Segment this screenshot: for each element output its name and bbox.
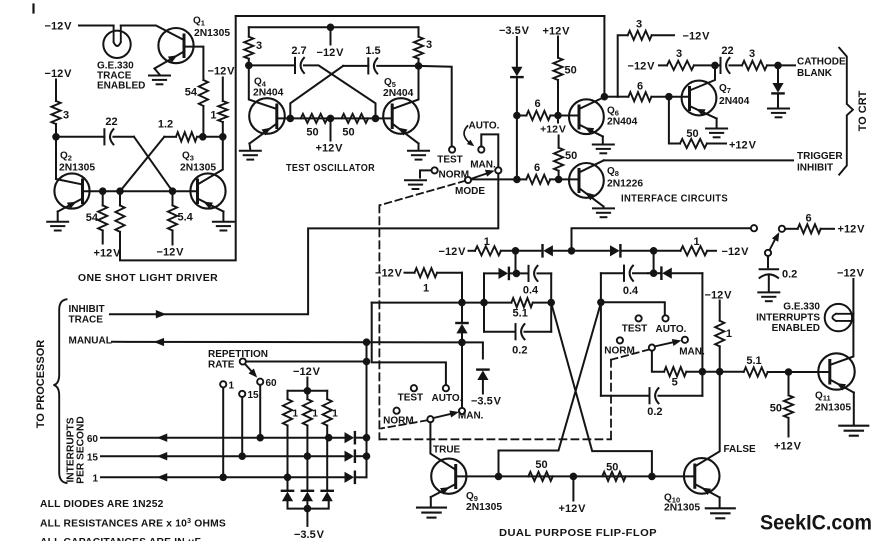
diode (clamp c, up) <box>322 491 333 501</box>
wire -12V rail to lamp <box>79 25 114 27</box>
wire 15/sec <box>101 455 345 457</box>
svg-text:Q1: Q1 <box>193 16 205 28</box>
wire Q7 base node down to 50 <box>669 97 680 144</box>
dashed box right edge <box>610 360 612 440</box>
wire base row left network <box>372 302 484 304</box>
svg-text:15: 15 <box>87 452 99 463</box>
capacitor 22 (cathode) <box>715 64 721 66</box>
svg-text:ALL DIODES ARE 1N252: ALL DIODES ARE 1N252 <box>40 499 164 510</box>
wire 1/sec <box>101 476 345 478</box>
svg-text:+12 V: +12 V <box>559 503 587 515</box>
capacitor 0.4 (left) <box>529 266 538 281</box>
lamp G.E.330 INTERRUPTS ENABLED <box>825 304 854 331</box>
svg-text:1: 1 <box>693 236 699 248</box>
wire oscillator inner rail <box>249 26 419 28</box>
svg-text:1.2: 1.2 <box>158 119 173 131</box>
node clamp rail <box>305 506 311 512</box>
svg-text:INHIBIT: INHIBIT <box>797 162 833 173</box>
resistor 3 (to -12V top) <box>628 31 652 40</box>
svg-text:2N404: 2N404 <box>607 117 638 128</box>
wire MANUAL <box>112 341 462 344</box>
svg-text:5.1: 5.1 <box>746 355 761 367</box>
node diode <box>775 63 781 69</box>
diode (15/sec) <box>345 451 355 462</box>
svg-text:−12 V: −12 V <box>157 247 185 259</box>
wire divider b down <box>306 426 308 491</box>
contact MAN (false side) <box>682 337 688 343</box>
node 5.4/diag A <box>170 188 176 194</box>
node Q10 base <box>649 474 655 480</box>
resistor 50 (left) <box>301 114 328 123</box>
wire resistor 3 to node <box>55 124 57 137</box>
svg-text:1: 1 <box>423 283 429 295</box>
resistor 3 (cathode row right) <box>730 64 743 66</box>
wire MODE row to interface <box>471 178 517 180</box>
wire to node <box>694 64 715 66</box>
svg-text:50: 50 <box>686 128 698 140</box>
node manual wire <box>459 340 465 346</box>
arrow 1 <box>157 473 167 481</box>
svg-text:−3.5 V: −3.5 V <box>294 529 325 541</box>
dashes pivot to box (true side) <box>381 420 427 428</box>
wire node to capacitor 2.7 <box>249 64 295 66</box>
contact NORM (mode) <box>432 167 438 173</box>
ground (Q3 emitter) <box>222 212 224 221</box>
svg-text:AUTO.: AUTO. <box>432 393 463 404</box>
svg-text:0.4: 0.4 <box>523 285 539 297</box>
resistor 6 (Q7 base) <box>618 96 629 98</box>
wire to -3.5V <box>306 509 308 526</box>
svg-text:−12 V: −12 V <box>208 66 236 78</box>
wire cross diagonal to Q4 base <box>290 66 343 119</box>
svg-text:3: 3 <box>256 40 262 52</box>
wire node row to resistor 1.2 <box>164 136 176 138</box>
svg-text:50: 50 <box>565 150 577 162</box>
network right: left edge <box>600 273 602 396</box>
wire 60/sec <box>101 437 345 439</box>
node rate wire <box>364 359 370 365</box>
diode (rail right, pointing right) <box>610 245 620 256</box>
ground (Q4 emitter) <box>249 144 252 150</box>
svg-text:RATE: RATE <box>208 359 235 370</box>
svg-text:0.2: 0.2 <box>647 406 662 418</box>
wire stub below node <box>557 116 559 123</box>
svg-text:+12 V: +12 V <box>94 248 122 260</box>
resistor 54 (Q1 base) <box>199 80 208 106</box>
contact AUTO (false side) <box>662 315 668 321</box>
network left: right edge <box>550 273 552 331</box>
resistor 1.2 <box>176 132 197 141</box>
wire +12V to resistor 50 <box>557 37 559 58</box>
svg-text:TO CRT: TO CRT <box>857 90 869 131</box>
wire rail middle <box>553 250 610 252</box>
wire to cathode blank <box>767 64 795 66</box>
contact MAN (mode) <box>495 167 501 173</box>
svg-text:3: 3 <box>63 110 69 122</box>
svg-text:MAN.: MAN. <box>458 411 484 422</box>
node rail stub <box>569 248 575 254</box>
node 15 x resistor <box>305 453 311 459</box>
wire to one-shot output rail <box>120 16 236 260</box>
svg-text:CATHODE: CATHODE <box>797 57 846 68</box>
wire Q2 base row <box>83 190 197 192</box>
switch pivot (repetition rate) <box>240 358 246 364</box>
diode (1/sec) <box>345 472 355 483</box>
svg-text:3: 3 <box>749 48 755 60</box>
wire Q1 base to resistor 54 <box>184 47 203 80</box>
svg-text:BLANK: BLANK <box>797 68 833 79</box>
svg-text:AUTO.: AUTO. <box>656 324 687 335</box>
svg-text:MODE: MODE <box>455 186 485 197</box>
wire to +12V <box>788 418 790 437</box>
svg-text:−12 V: −12 V <box>293 366 321 378</box>
svg-text:TRIGGER: TRIGGER <box>797 151 843 162</box>
svg-text:2N1305: 2N1305 <box>664 503 700 514</box>
resistor 50 (Q8) <box>554 148 563 171</box>
wire capacitor 1.5 to node <box>377 65 418 67</box>
svg-text:2.7: 2.7 <box>291 45 306 57</box>
wire resistor 1 to node <box>222 122 224 137</box>
svg-text:22: 22 <box>105 116 117 128</box>
svg-text:+12 V: +12 V <box>838 224 866 236</box>
arrow inhibit trace <box>156 310 166 318</box>
svg-text:TO PROCESSOR: TO PROCESSOR <box>35 340 47 428</box>
svg-text:ALL RESISTANCES ARE x 103 OHMS: ALL RESISTANCES ARE x 103 OHMS <box>40 518 226 530</box>
diode (60/sec) <box>345 432 355 443</box>
node Q6 base left <box>514 113 520 119</box>
svg-text:−12 V: −12 V <box>45 21 73 33</box>
wire top rail down to Q6 collector <box>603 16 605 97</box>
node Q9 base <box>496 474 502 480</box>
resistor 3 (cathode row left) <box>667 61 694 70</box>
node Q6 collector <box>602 94 608 100</box>
svg-text:−12 V: −12 V <box>705 289 733 301</box>
node network left edge <box>481 300 487 306</box>
svg-text:2N1305: 2N1305 <box>180 163 216 174</box>
node diag B / base <box>288 116 294 122</box>
ground (0.2 cap) <box>758 292 779 301</box>
ground (Q1 emitter) <box>155 69 160 75</box>
wire +12V stub <box>572 476 574 500</box>
transistor Q11 <box>818 353 854 392</box>
svg-text:6: 6 <box>805 213 811 225</box>
wire riser up to resistor 3 <box>618 35 628 96</box>
dashed box left edge <box>378 205 380 439</box>
cross coupling diagonal A <box>551 303 652 476</box>
node Q11 base / 50 <box>786 369 792 375</box>
svg-text:ONE SHOT LIGHT DRIVER: ONE SHOT LIGHT DRIVER <box>78 272 218 284</box>
wire lamp to Q1 collector <box>121 26 184 41</box>
ground (NORM) <box>405 180 426 189</box>
switch pivot (interrupt enable) <box>765 250 771 256</box>
ground (Q9 emitter) <box>430 497 432 507</box>
resistor 3 (Q4 collector) <box>248 27 250 36</box>
arc arrow AUTO <box>464 126 471 145</box>
node Q7 base / 50 <box>666 94 672 100</box>
capacitor 0.2 (pivot to ground) <box>767 256 769 267</box>
resistor 3 (Q2 collector) <box>51 101 60 124</box>
wire rail to resistor 1 <box>621 250 681 252</box>
wire node to TEST drop <box>419 66 452 146</box>
wire to +12V <box>102 231 104 244</box>
svg-text:3: 3 <box>426 39 432 51</box>
svg-text:ENABLED: ENABLED <box>97 81 145 92</box>
wire -12V to resistor 3 <box>55 80 57 102</box>
ground (Q5 emitter) <box>418 144 420 150</box>
transistor Q7 <box>682 65 717 118</box>
contact (interrupt enable left) <box>751 225 757 231</box>
svg-text:MANUAL: MANUAL <box>69 335 112 346</box>
svg-text:Q8: Q8 <box>607 166 619 178</box>
transistor Q5 <box>383 66 419 144</box>
svg-text:1: 1 <box>293 408 299 419</box>
node -12V stub <box>328 25 334 31</box>
network left: left edge <box>483 273 485 331</box>
node +12V stub <box>571 474 577 480</box>
diode (clamp a, up) <box>282 491 293 501</box>
wire resistor 1.2 to box edge <box>197 136 223 138</box>
wire -12V to resistor 3 <box>659 64 667 66</box>
resistor 50 (Q10 base) <box>602 472 626 481</box>
transistor Q6 <box>569 97 605 137</box>
wire resistor to base node <box>557 80 559 116</box>
node 60 x resistor <box>326 435 332 441</box>
svg-text:54: 54 <box>185 87 198 99</box>
wire FALSE drop to Q10 <box>695 372 720 467</box>
cross coupling diagonal B <box>499 303 601 477</box>
svg-text:1.5: 1.5 <box>365 45 380 57</box>
svg-text:2N1305: 2N1305 <box>194 28 230 39</box>
capacitor 22 <box>104 129 113 144</box>
wire stub to -12V <box>330 27 332 44</box>
svg-text:3: 3 <box>636 19 642 31</box>
node resistor1/-12V <box>220 134 226 140</box>
wire top rail <box>236 15 605 17</box>
svg-text:Q11: Q11 <box>815 391 831 403</box>
svg-text:3: 3 <box>676 48 682 60</box>
switch pivot (true side) <box>427 416 433 422</box>
svg-text:−12 V: −12 V <box>45 68 73 80</box>
wire -3.5V down <box>516 37 518 67</box>
svg-text:2N1305: 2N1305 <box>815 403 851 414</box>
svg-text:54: 54 <box>86 212 99 224</box>
svg-text:INHIBIT: INHIBIT <box>69 304 105 315</box>
resistor 1 (divider a) <box>287 391 289 399</box>
resistor 3 (Q5 collector) <box>418 27 420 36</box>
svg-text:6: 6 <box>534 98 540 110</box>
svg-text:50: 50 <box>606 462 618 474</box>
diode (right network, pointing left) <box>648 272 661 274</box>
svg-text:50: 50 <box>535 459 547 471</box>
diode (-3.5V feed, down) <box>511 67 522 77</box>
svg-text:15: 15 <box>248 390 260 401</box>
wire contact 15 down <box>241 397 243 456</box>
riser (interrupt collector) <box>366 342 368 477</box>
svg-text:1: 1 <box>312 408 318 419</box>
svg-text:50: 50 <box>306 127 318 139</box>
svg-text:MAN.: MAN. <box>679 346 705 357</box>
arrow 15 <box>157 452 167 460</box>
svg-text:AUTO.: AUTO. <box>469 120 500 131</box>
resistor 1 (divider b) <box>306 391 308 399</box>
svg-text:Q7: Q7 <box>719 83 731 95</box>
node 60 x contact <box>257 435 263 441</box>
capacitor 0.4 (right) <box>601 272 624 274</box>
svg-text:2N1305: 2N1305 <box>59 163 95 174</box>
svg-text:Q3: Q3 <box>182 151 194 163</box>
switch arm (false side) <box>655 342 677 347</box>
arrow manual (left) <box>154 338 164 346</box>
node right edge x resistor row <box>700 369 706 375</box>
capacitor 0.2 (right network bottom) <box>601 395 650 397</box>
svg-text:+12 V: +12 V <box>540 123 566 135</box>
svg-text:REPETITION: REPETITION <box>208 349 268 360</box>
node resistor54/Q1 <box>200 134 206 140</box>
ground (Q7 emitter) <box>716 119 718 128</box>
svg-text:+12 V: +12 V <box>729 140 757 152</box>
transistor Q8 <box>569 160 604 206</box>
svg-text:1: 1 <box>332 408 338 419</box>
node divider rail <box>305 388 311 394</box>
svg-text:5.1: 5.1 <box>513 308 528 320</box>
transistor Q3 <box>190 137 225 212</box>
node network right edge <box>548 300 554 306</box>
svg-text:−3.5 V: −3.5 V <box>471 396 502 408</box>
node diag A / base <box>373 116 379 122</box>
node Q8 base left <box>514 177 520 183</box>
ground (Q2 emitter) <box>57 212 59 221</box>
switch arm mode <box>471 172 491 179</box>
wire Q4/Q5 base row <box>277 117 392 119</box>
diode (cathode clamp, down) <box>777 65 779 83</box>
contact 15 (rate) <box>239 391 245 397</box>
resistor 1 (divider c) <box>326 391 328 399</box>
svg-text:2N404: 2N404 <box>253 88 284 99</box>
svg-text:DUAL PURPOSE FLIP-FLOP: DUAL PURPOSE FLIP-FLOP <box>499 527 657 539</box>
node 1 x resistor <box>285 475 291 481</box>
brace TO CRT <box>839 48 853 175</box>
contact AUTO (mode) <box>478 147 484 153</box>
contact AUTO (true side) <box>443 385 449 391</box>
switch arm (true side) <box>433 413 454 418</box>
contact MAN (true side) <box>459 408 465 414</box>
svg-text:50: 50 <box>342 127 354 139</box>
arrow 60 <box>157 434 167 442</box>
svg-text:6: 6 <box>637 81 643 93</box>
ground (Q6 emitter) <box>602 137 604 144</box>
node -12V/1 feed <box>717 369 723 375</box>
node Q5 collector <box>416 63 422 69</box>
wire node down to network right <box>653 251 655 273</box>
node +12V stub <box>328 116 334 122</box>
node Q2 collector <box>53 134 59 140</box>
svg-text:−12 V: −12 V <box>683 30 711 42</box>
wire TRUE pivot to Q9 collector <box>430 422 455 469</box>
contact 1 (rate) <box>220 381 226 387</box>
svg-text:−12 V: −12 V <box>317 47 345 59</box>
wire Q9 feed vertical <box>461 273 463 322</box>
svg-text:TRACE: TRACE <box>69 315 104 326</box>
node 15 wire <box>364 453 370 459</box>
node Q9 base wire <box>459 300 465 306</box>
resistor 50 (Q11 base) <box>788 372 790 395</box>
svg-text:2N404: 2N404 <box>719 96 750 107</box>
wire resistor to Q8 base node <box>558 171 560 180</box>
stray tick top-left <box>32 5 34 13</box>
resistor 5.4 <box>172 191 174 205</box>
svg-text:1: 1 <box>229 380 235 391</box>
svg-text:1: 1 <box>92 473 98 484</box>
ground (Q8 emitter) <box>603 207 605 208</box>
svg-text:SeekIC.com: SeekIC.com <box>760 511 872 535</box>
resistor 1 <box>218 101 227 122</box>
contact TEST (false side) <box>636 315 642 321</box>
wire -12V to rail <box>306 378 308 391</box>
svg-text:+12 V: +12 V <box>774 441 802 453</box>
svg-text:TRUE: TRUE <box>433 444 461 455</box>
wire contact 60 down <box>259 385 261 438</box>
wire -12V down to resistor 1 <box>222 78 224 102</box>
svg-text:−3.5 V: −3.5 V <box>499 25 530 37</box>
wire divider a down <box>287 426 289 491</box>
svg-text:ALL CAPACITANCES ARE IN μF: ALL CAPACITANCES ARE IN μF <box>40 537 201 541</box>
wire to +12V <box>707 143 726 145</box>
node Q6 base right <box>555 113 561 119</box>
svg-text:PER SECOND: PER SECOND <box>76 416 87 483</box>
wire Q11 base row <box>768 371 830 373</box>
node Q7 collector <box>712 63 718 69</box>
svg-text:G.E.330: G.E.330 <box>783 302 820 313</box>
node resistor/diag B <box>117 188 123 194</box>
wire divider c down <box>326 426 328 491</box>
node right network after cap <box>651 270 657 276</box>
resistor 50 (Q6) <box>553 58 562 80</box>
resistor 50 (Q9 base) <box>528 472 552 481</box>
contact (to +12V) <box>779 226 785 232</box>
diode (left network, right) <box>484 272 499 274</box>
node Q8 base <box>556 177 562 183</box>
svg-text:6: 6 <box>534 162 540 174</box>
capacitor 0.2 (left network bottom) <box>484 331 516 333</box>
switch pivot (mode) <box>465 177 471 183</box>
capacitor 2.7 <box>295 58 304 73</box>
dashes mode pivot to box corner <box>380 181 465 205</box>
svg-text:5.4: 5.4 <box>178 212 194 224</box>
contact 60 (rate) <box>257 379 263 385</box>
ground (cathode clamp) <box>768 109 789 118</box>
node rail right <box>651 248 657 254</box>
wire pivot down to resistor 5 <box>652 351 664 372</box>
svg-text:22: 22 <box>721 45 733 57</box>
svg-text:NORM: NORM <box>604 345 635 356</box>
svg-text:2N404: 2N404 <box>383 88 414 99</box>
wire diode to mode row <box>516 78 518 180</box>
wire contact 1 down <box>222 388 224 478</box>
switch arm (rate) <box>245 364 255 375</box>
resistor 1 (Q9 feed) <box>405 272 415 274</box>
ground (Q11 emitter) <box>853 393 855 425</box>
diode (clamp b, up) <box>302 491 313 501</box>
wire diode to right edge <box>672 272 703 274</box>
transistor Q10 <box>684 458 720 497</box>
svg-text:2N1226: 2N1226 <box>607 179 643 190</box>
svg-text:50: 50 <box>770 403 782 415</box>
wire lamp to Q11 collector <box>830 314 854 365</box>
svg-text:TEST OSCILLATOR: TEST OSCILLATOR <box>286 162 375 174</box>
wire crossover diagonal B <box>120 137 164 191</box>
wire +12V stub <box>330 118 332 140</box>
resistor 5.1 (left network) <box>484 302 511 304</box>
